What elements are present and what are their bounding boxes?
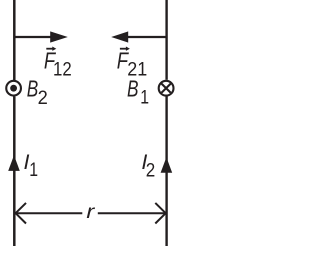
label I1 bbox=[24, 150, 39, 181]
svg-text:12: 12 bbox=[53, 60, 72, 81]
label I2 bbox=[141, 150, 155, 182]
field symbol B1 (into page: circle with X, on wire 2) bbox=[159, 81, 174, 96]
force arrow F21 (on wire 2, pointing left) bbox=[111, 31, 166, 42]
wire 2 (right conductor, upper segment) bbox=[165, 0, 167, 80]
label B1 bbox=[127, 76, 149, 109]
svg-text:2: 2 bbox=[38, 88, 48, 109]
svg-text:1: 1 bbox=[29, 160, 38, 181]
svg-text:B: B bbox=[127, 76, 139, 102]
field symbol B2 (out of page: circle with dot, on wire 1) bbox=[6, 81, 21, 96]
wire 1 (left conductor, upper segment) bbox=[13, 0, 16, 80]
svg-text:2: 2 bbox=[146, 161, 156, 182]
current arrow I2 (on wire 2, pointing up) bbox=[161, 157, 173, 172]
force arrow F12 (on wire 1, pointing right) bbox=[15, 31, 68, 42]
svg-text:B: B bbox=[27, 76, 39, 102]
label F12 (vector F with arrow and subscript 12) bbox=[44, 47, 72, 81]
wire 1 (left conductor, lower segment) bbox=[13, 97, 16, 247]
svg-text:1: 1 bbox=[140, 88, 149, 109]
label F21 (vector F with arrow and subscript 21) bbox=[117, 47, 148, 81]
wire 2 (right conductor, lower segment) bbox=[165, 97, 167, 247]
current arrow I1 (on wire 1, pointing up) bbox=[8, 155, 20, 171]
dimension arrow r (separation between wires, double-headed) bbox=[16, 203, 166, 224]
label B2 bbox=[27, 76, 48, 109]
svg-text:r: r bbox=[86, 201, 96, 223]
